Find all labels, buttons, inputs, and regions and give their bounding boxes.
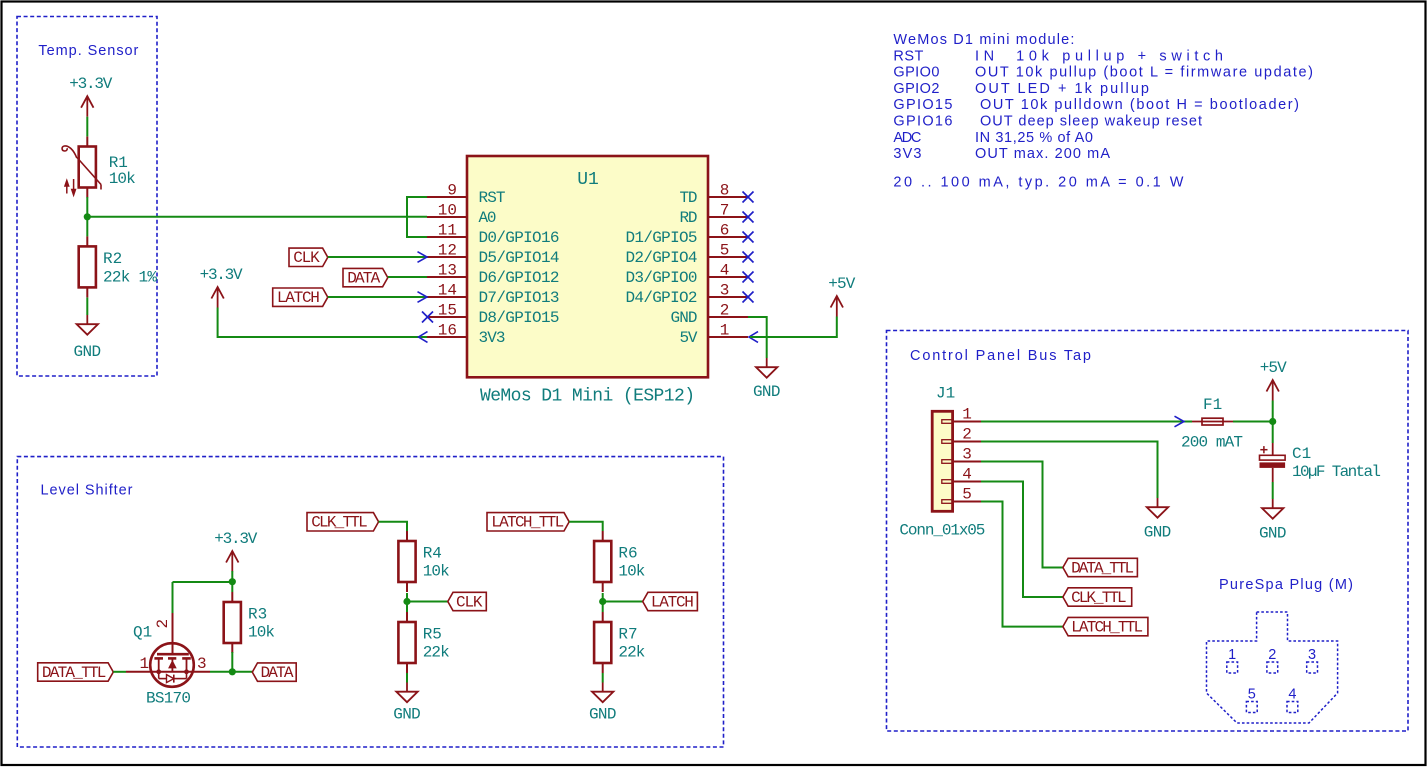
- global label LATCH_TTL (bus tap): [1063, 617, 1148, 635]
- global label CLK_TTL (level shifter): [307, 513, 379, 531]
- wire +3.3V to R1: [86, 117, 88, 137]
- no-connect right pin 8: [743, 192, 754, 203]
- global label LATCH_TTL (level shifter): [487, 513, 569, 531]
- svg-text:1: 1: [1228, 647, 1236, 663]
- svg-text:D1/GPIO5: D1/GPIO5: [626, 229, 698, 247]
- svg-text:TD: TD: [680, 189, 698, 207]
- svg-text:R2: R2: [103, 250, 122, 268]
- svg-text:D4/GPIO2: D4/GPIO2: [626, 289, 698, 307]
- svg-text:BS170: BS170: [146, 690, 191, 708]
- ground GND (J1 pin2): [1157, 498, 1159, 507]
- svg-text:DATA: DATA: [261, 664, 294, 682]
- J1 pin 2: [942, 440, 953, 444]
- J1 pin 5: [942, 500, 953, 504]
- J1 pin 1: [942, 420, 953, 424]
- arrow into 5V pin: [749, 332, 758, 343]
- svg-text:16: 16: [438, 322, 457, 340]
- ground GND (temp sensor): [86, 315, 88, 324]
- ground GND (C1): [1272, 499, 1274, 508]
- svg-text:RD: RD: [680, 209, 698, 227]
- transistor Q1 BS170: [126, 613, 210, 708]
- global label DATA (level shifter): [252, 663, 296, 681]
- svg-text:+5V: +5V: [1260, 359, 1287, 377]
- junction +3.3V rail: [229, 578, 236, 585]
- svg-text:Q1: Q1: [133, 624, 152, 642]
- svg-text:13: 13: [438, 262, 457, 280]
- svg-text:R3: R3: [248, 606, 267, 624]
- svg-text:R4: R4: [423, 545, 442, 563]
- resistor R3 10k: [231, 592, 233, 602]
- svg-text:4: 4: [1288, 687, 1296, 703]
- wire junction to U1 pin A0: [87, 216, 427, 218]
- wire R3 to DATA junction: [231, 652, 233, 672]
- no-connect right pin 4: [743, 272, 754, 283]
- wire CLK to pin 12: [328, 256, 427, 258]
- svg-text:GND: GND: [1259, 525, 1287, 543]
- Temp. Sensor dashed box: [17, 17, 157, 377]
- wire DATA_TTL to Q1 pin 1: [113, 671, 126, 673]
- svg-text:LATCH: LATCH: [277, 289, 320, 307]
- svg-text:1: 1: [962, 406, 972, 424]
- svg-text:U1: U1: [577, 170, 599, 190]
- wire R5 to GND: [406, 673, 408, 683]
- svg-text:LATCH_TTL: LATCH_TTL: [1071, 618, 1143, 636]
- svg-text:3V3: 3V3: [893, 146, 921, 162]
- wire CLK_TTL to R4: [379, 522, 407, 531]
- svg-text:GND: GND: [589, 706, 617, 724]
- svg-text:Control Panel Bus Tap: Control Panel Bus Tap: [910, 348, 1091, 364]
- power +3.3V (3V3 rail): [217, 287, 219, 308]
- junction LATCH node: [599, 598, 606, 605]
- svg-text:GND: GND: [671, 309, 698, 327]
- wire LATCH to pin 14: [328, 296, 427, 298]
- U1 right pin 3 D4/GPIO2: [708, 296, 748, 298]
- svg-text:CLK: CLK: [293, 249, 320, 267]
- svg-text:3: 3: [1308, 647, 1316, 663]
- svg-text:22k: 22k: [618, 644, 645, 662]
- no-connect pin 15: [422, 312, 433, 323]
- wire 5V pin to +5V: [750, 317, 837, 338]
- wire R7 to GND: [602, 673, 604, 683]
- wire F1 to +5V junction: [1233, 421, 1273, 423]
- power +5V (bus tap): [1272, 380, 1274, 401]
- svg-text:R5: R5: [423, 626, 442, 644]
- svg-text:D7/GPIO13: D7/GPIO13: [479, 289, 560, 307]
- svg-text:GND: GND: [393, 706, 421, 724]
- plug pin 3: [1307, 662, 1318, 673]
- capacitor C1 10uF tantal: [1260, 443, 1382, 482]
- svg-text:3: 3: [720, 282, 730, 300]
- PureSpa plug outline: [1207, 612, 1338, 723]
- wire J1 pin5 to LATCH_TTL: [981, 502, 1063, 627]
- resistor R2 22k 1%: [86, 236, 88, 246]
- svg-text:4: 4: [720, 262, 730, 280]
- U1 left pin 13 D6/GPIO12: [427, 276, 467, 278]
- svg-text:3: 3: [962, 446, 972, 464]
- global label CLK (divider): [448, 592, 487, 610]
- svg-text:2: 2: [720, 302, 730, 320]
- svg-text:Temp. Sensor: Temp. Sensor: [38, 43, 138, 59]
- global label LATCH (divider): [643, 592, 698, 610]
- svg-text:10k: 10k: [423, 563, 450, 581]
- wire RST to D0/GPIO16 loop: [407, 197, 427, 237]
- svg-text:F1: F1: [1203, 396, 1222, 414]
- U1 left pin 16 3V3: [427, 336, 467, 338]
- svg-text:15: 15: [438, 302, 457, 320]
- no-connect right pin 5: [743, 252, 754, 263]
- svg-text:3: 3: [197, 655, 207, 673]
- svg-text:+3.3V: +3.3V: [200, 266, 243, 284]
- arrow into pin 14: [418, 292, 428, 303]
- svg-text:OUT 10k pullup (boot L = firmw: OUT 10k pullup (boot L = firmware update…: [975, 65, 1313, 81]
- svg-text:5: 5: [720, 242, 730, 260]
- svg-text:RST: RST: [893, 48, 923, 64]
- svg-text:IN 31,25 % of A0: IN 31,25 % of A0: [975, 130, 1093, 146]
- junction CLK node: [403, 598, 410, 605]
- U1 left pin 9 RST: [427, 196, 467, 198]
- svg-text:R6: R6: [618, 545, 637, 563]
- Control Panel Bus Tap dashed box: [887, 331, 1409, 732]
- svg-text:11: 11: [438, 222, 457, 240]
- U1 right pin 6 D1/GPIO5: [708, 236, 748, 238]
- svg-text:D2/GPIO4: D2/GPIO4: [626, 249, 698, 267]
- no-connect right pin 7: [743, 212, 754, 223]
- svg-text:Conn_01x05: Conn_01x05: [899, 521, 985, 539]
- svg-text:10µF Tantal: 10µF Tantal: [1292, 463, 1381, 481]
- no-connect right pin 6: [743, 232, 754, 243]
- wire R2 to GND: [86, 298, 88, 316]
- svg-text:GPIO2: GPIO2: [893, 81, 939, 97]
- plug pin 2: [1267, 662, 1278, 673]
- svg-text:OUT deep sleep wakeup reset: OUT deep sleep wakeup reset: [980, 114, 1202, 130]
- svg-text:10k: 10k: [109, 170, 136, 188]
- global label DATA_TTL (level shifter): [38, 663, 114, 681]
- svg-text:200 mAT: 200 mAT: [1181, 434, 1243, 452]
- svg-text:2: 2: [154, 619, 172, 629]
- wire LATCH_TTL to R6: [569, 522, 603, 531]
- U1 left pin 10 A0: [427, 216, 467, 218]
- no-connect right pin 3: [743, 292, 754, 303]
- connector J1 body: [932, 411, 952, 511]
- wire J1 pin2 to GND: [981, 442, 1158, 499]
- ground GND (U1): [766, 358, 768, 367]
- notes text block WeMos D1 mini module: [893, 32, 1313, 191]
- U1 left pin 11 D0/GPIO16: [427, 236, 467, 238]
- svg-text:GND: GND: [1144, 524, 1172, 542]
- svg-text:CLK_TTL: CLK_TTL: [1071, 589, 1127, 607]
- svg-text:GPIO0: GPIO0: [893, 65, 939, 81]
- svg-text:GPIO16: GPIO16: [893, 114, 952, 130]
- wire U1 GND pin to ground: [748, 317, 767, 358]
- svg-text:LATCH_TTL: LATCH_TTL: [491, 514, 564, 532]
- wire R4 to R5: [406, 593, 408, 612]
- svg-text:DATA_TTL: DATA_TTL: [42, 664, 107, 682]
- svg-text:CLK: CLK: [456, 593, 483, 611]
- svg-text:9: 9: [447, 182, 457, 200]
- svg-text:R7: R7: [618, 626, 637, 644]
- svg-text:10k: 10k: [248, 624, 275, 642]
- wire R1 to R2: [86, 197, 88, 236]
- resistor R7 22k: [602, 612, 604, 622]
- svg-text:ADC: ADC: [893, 130, 921, 146]
- J1 pin 3: [942, 460, 953, 464]
- wire DATA to pin 13: [388, 276, 427, 278]
- junction R1/R2/A0: [84, 213, 91, 220]
- svg-text:WeMos D1 mini module:: WeMos D1 mini module:: [893, 32, 1074, 48]
- power +3.3V (level shifter): [231, 551, 233, 572]
- global label CLK: [289, 248, 328, 266]
- svg-text:DATA: DATA: [347, 269, 380, 287]
- U1 left pin 14 D7/GPIO13: [427, 296, 467, 298]
- svg-text:1: 1: [140, 655, 150, 673]
- junction +5V node: [1269, 418, 1276, 425]
- resistor R6 10k: [602, 531, 604, 541]
- svg-text:OUT 10k pulldown (boot H = boo: OUT 10k pulldown (boot H = bootloader): [980, 97, 1299, 113]
- svg-text:CLK_TTL: CLK_TTL: [311, 514, 368, 532]
- wire C1 to GND: [1272, 482, 1274, 499]
- wire J1 pin3 to DATA_TTL: [981, 462, 1063, 568]
- resistor R1 thermistor 10k: [86, 137, 88, 147]
- svg-text:5: 5: [962, 486, 972, 504]
- svg-text:GND: GND: [753, 383, 781, 401]
- svg-text:A0: A0: [479, 209, 497, 227]
- resistor R4 10k: [406, 531, 408, 541]
- arrow out of pin 16: [419, 332, 428, 343]
- svg-text:2: 2: [1268, 647, 1276, 663]
- svg-text:1: 1: [720, 322, 730, 340]
- resistor R5 22k: [406, 612, 408, 622]
- wire J1 pin4 to CLK_TTL: [981, 482, 1063, 598]
- svg-text:OUT max. 200 mA: OUT max. 200 mA: [975, 146, 1110, 162]
- global label LATCH: [273, 288, 328, 306]
- svg-text:D0/GPIO16: D0/GPIO16: [479, 229, 560, 247]
- wire +5V to junction: [1272, 401, 1274, 422]
- svg-text:14: 14: [438, 282, 457, 300]
- svg-text:GND: GND: [74, 343, 102, 361]
- U1 right pin 2 GND: [708, 316, 748, 318]
- svg-text:22k: 22k: [423, 644, 450, 662]
- U1 right pin 8 TD: [708, 196, 748, 198]
- U1 left pin 12 D5/GPIO14: [427, 256, 467, 258]
- global label CLK_TTL (bus tap): [1063, 588, 1132, 606]
- wire +3.3V rail to R3 and gate: [231, 571, 233, 592]
- svg-text:+3.3V: +3.3V: [214, 530, 257, 548]
- svg-text:DATA_TTL: DATA_TTL: [1071, 559, 1134, 577]
- wire 3V3 to +3.3V: [218, 308, 427, 338]
- wire junction to C1: [1272, 422, 1274, 444]
- wire LATCH node to LATCH label: [603, 601, 643, 603]
- svg-text:D3/GPIO0: D3/GPIO0: [626, 269, 698, 287]
- svg-text:RST: RST: [479, 189, 506, 207]
- svg-text:2: 2: [962, 426, 972, 444]
- svg-text:10: 10: [438, 202, 457, 220]
- svg-text:4: 4: [962, 466, 972, 484]
- plug pin 4: [1287, 702, 1298, 713]
- svg-text:GPIO15: GPIO15: [893, 97, 952, 113]
- svg-text:PureSpa Plug (M): PureSpa Plug (M): [1219, 577, 1353, 593]
- svg-text:8: 8: [720, 182, 730, 200]
- svg-text:+5V: +5V: [828, 275, 855, 293]
- svg-text:Level Shifter: Level Shifter: [41, 483, 133, 499]
- svg-text:D6/GPIO12: D6/GPIO12: [479, 269, 560, 287]
- wire Q1 pin3 to DATA label: [210, 671, 252, 673]
- wire R6 to R7: [602, 593, 604, 612]
- svg-text:3V3: 3V3: [479, 329, 506, 347]
- ground GND (R5): [406, 683, 408, 692]
- svg-text:WeMos D1 Mini (ESP12): WeMos D1 Mini (ESP12): [480, 387, 695, 407]
- junction DATA node: [229, 668, 236, 675]
- wire J1 pin1 to F1: [981, 421, 1192, 423]
- global label DATA_TTL (bus tap): [1063, 558, 1138, 576]
- ground GND (R7): [602, 683, 604, 692]
- svg-text:D8/GPIO15: D8/GPIO15: [479, 309, 560, 327]
- svg-text:20 .. 100 mA, typ. 20 mA = 0.1: 20 .. 100 mA, typ. 20 mA = 0.1 W: [893, 175, 1183, 191]
- svg-text:+3.3V: +3.3V: [69, 75, 112, 93]
- svg-text:12: 12: [438, 242, 457, 260]
- power +3.3V (temp sensor): [86, 96, 88, 117]
- svg-text:LATCH: LATCH: [651, 593, 694, 611]
- global label DATA: [343, 268, 388, 286]
- U1 right pin 5 D2/GPIO4: [708, 256, 748, 258]
- Level Shifter dashed box: [17, 457, 723, 747]
- svg-text:5: 5: [1248, 687, 1256, 703]
- svg-text:J1: J1: [936, 385, 955, 403]
- svg-text:D5/GPIO14: D5/GPIO14: [479, 249, 560, 267]
- U1 right pin 4 D3/GPIO0: [708, 276, 748, 278]
- U1 left pin 15 D8/GPIO15: [427, 316, 467, 318]
- svg-text:5V: 5V: [680, 329, 698, 347]
- U1 right pin 7 RD: [708, 216, 748, 218]
- wire CLK node to CLK label: [407, 601, 448, 603]
- svg-text:10k: 10k: [618, 563, 645, 581]
- svg-text:OUT LED + 1k pullup: OUT LED + 1k pullup: [975, 81, 1149, 97]
- arrow on +5V feed wire: [1175, 416, 1185, 427]
- arrow into pin 12: [418, 252, 428, 263]
- svg-text:22k 1%: 22k 1%: [103, 269, 157, 287]
- power +5V (U1): [836, 296, 838, 317]
- svg-text:C1: C1: [1292, 445, 1311, 463]
- U1 right pin 1 5V: [708, 336, 748, 338]
- J1 pin 4: [942, 480, 953, 484]
- svg-text:6: 6: [720, 222, 730, 240]
- fuse F1: [1192, 421, 1233, 423]
- IC U1 WeMos D1 Mini body: [467, 156, 708, 377]
- plug pin 1: [1227, 662, 1238, 673]
- plug pin 5: [1246, 702, 1257, 713]
- svg-text:7: 7: [720, 202, 730, 220]
